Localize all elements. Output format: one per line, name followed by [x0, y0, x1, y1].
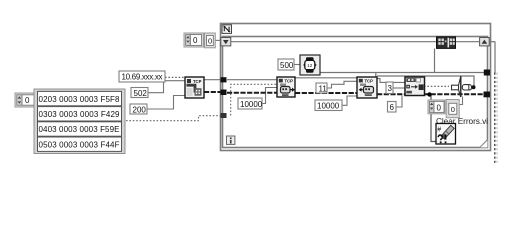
- svg-text:0: 0: [25, 96, 30, 105]
- svg-text:0: 0: [193, 36, 198, 45]
- svg-text:0203 0003 0003 F5F8: 0203 0003 0003 F5F8: [39, 95, 121, 104]
- svg-text:0: 0: [451, 105, 455, 114]
- svg-text:200: 200: [133, 105, 147, 114]
- svg-text:10000: 10000: [240, 100, 263, 109]
- svg-text:12: 12: [307, 63, 313, 68]
- svg-text:10.69.xxx.xx: 10.69.xxx.xx: [122, 73, 163, 82]
- svg-text:#: #: [437, 127, 441, 134]
- svg-text:0303 0003 0003 F429: 0303 0003 0003 F429: [39, 110, 121, 119]
- svg-text:0503 0003 0003 F44F: 0503 0003 0003 F44F: [39, 140, 120, 149]
- svg-text:500: 500: [280, 61, 294, 70]
- svg-text:0: 0: [208, 37, 212, 46]
- svg-text:11: 11: [319, 84, 328, 93]
- svg-text:0403 0003 0003 F59E: 0403 0003 0003 F59E: [39, 125, 120, 134]
- svg-text:6: 6: [390, 103, 395, 112]
- svg-text:10000: 10000: [317, 101, 340, 110]
- svg-text:502: 502: [134, 89, 148, 98]
- svg-text:0: 0: [437, 103, 442, 112]
- svg-text:3: 3: [388, 84, 393, 93]
- svg-text:TCP: TCP: [285, 79, 294, 84]
- svg-text:TCP: TCP: [193, 79, 202, 84]
- svg-text:TCP: TCP: [365, 79, 374, 84]
